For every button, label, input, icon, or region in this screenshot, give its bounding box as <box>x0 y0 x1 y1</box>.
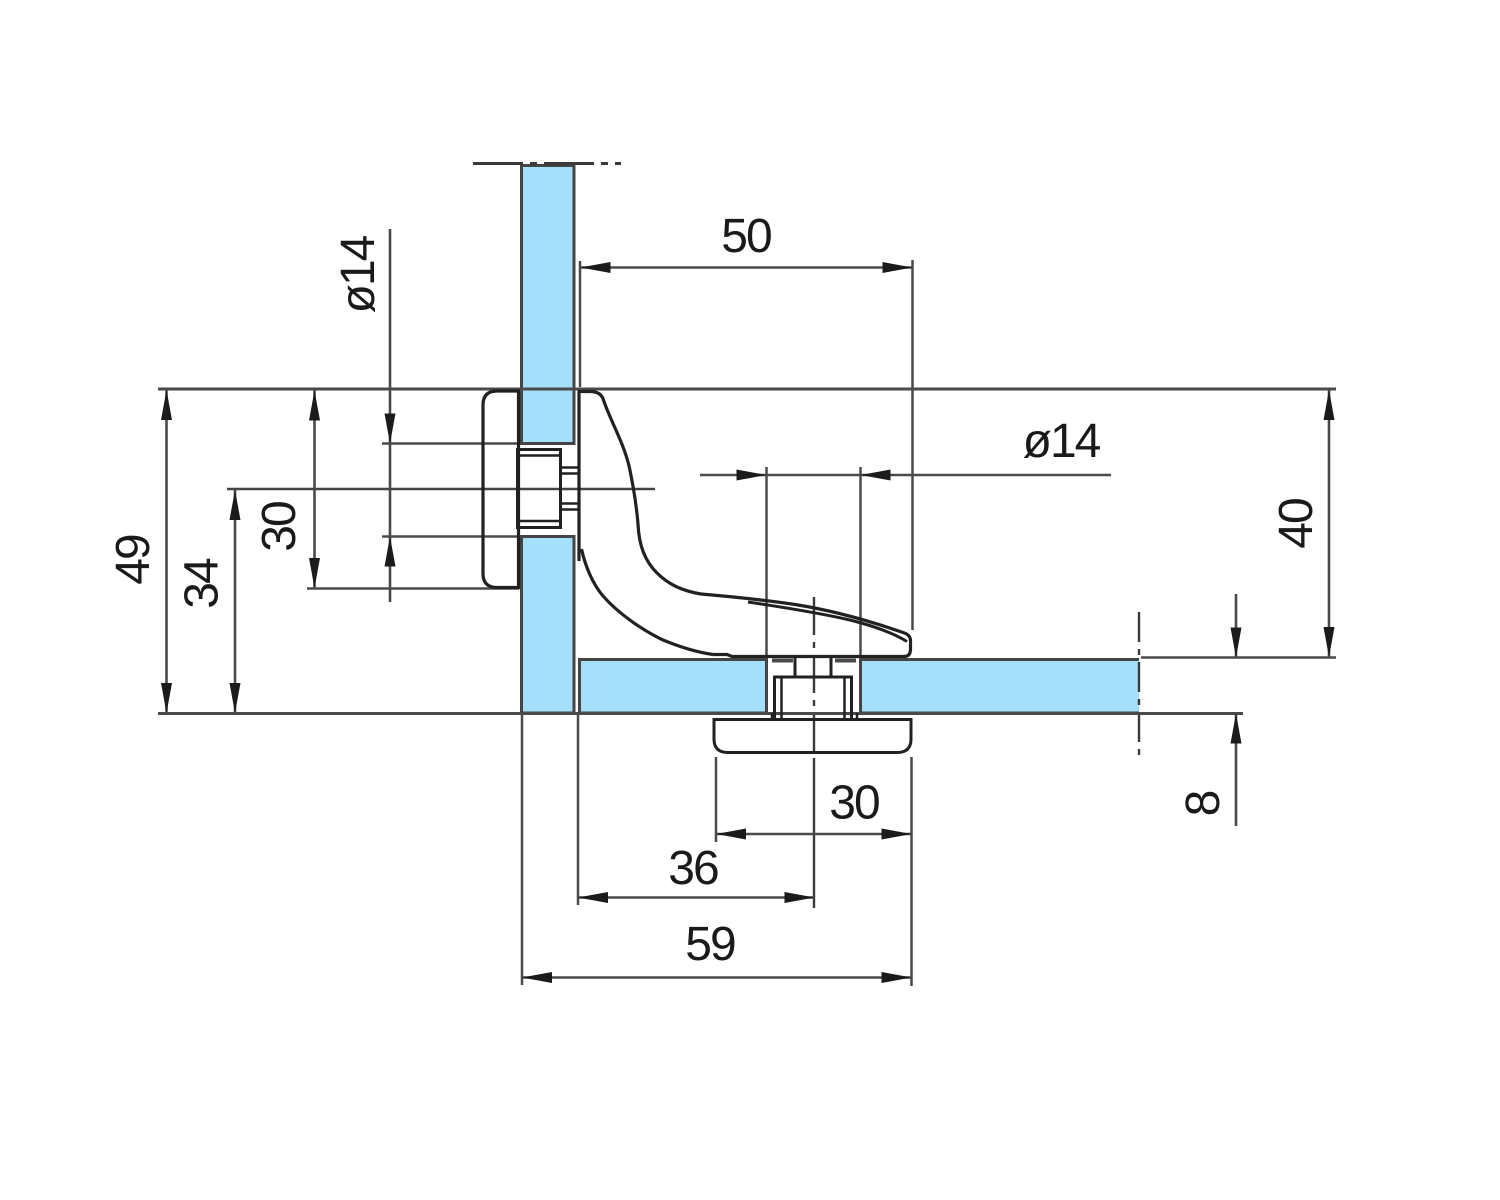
dimension 59 text <box>685 918 735 971</box>
dimension 40 text <box>1270 499 1323 549</box>
svg-text:40: 40 <box>1270 499 1323 549</box>
extension line top (bracket top plane) <box>158 388 1336 391</box>
top screw thread stubs <box>561 468 581 510</box>
vertical glass panel upper part <box>522 166 575 444</box>
dimension 59 line <box>522 972 912 983</box>
extension line bottom head left <box>715 757 718 842</box>
extension line glass face (36 dim) <box>577 713 580 905</box>
dimension 49 line <box>161 390 172 714</box>
centerline top (vertical glass axis break) <box>473 162 621 165</box>
dimension 49 text <box>107 535 160 585</box>
dimension o14 top text <box>332 235 385 313</box>
top screw head with washer <box>518 450 561 528</box>
dimension o14 bottom line <box>700 470 1111 481</box>
dimension 8 text <box>1177 790 1230 817</box>
centerline right (horizontal glass end) <box>1138 612 1140 762</box>
dimension 30 pad text <box>253 502 306 552</box>
svg-text:49: 49 <box>107 535 160 585</box>
bottom screw washer lips in hole <box>772 659 856 663</box>
dimension o14 top vertical line <box>385 229 396 602</box>
svg-text:ø14: ø14 <box>332 235 385 313</box>
vertical glass panel lower part <box>522 537 575 714</box>
bracket bottom fillet curve <box>582 549 714 655</box>
centerline top screw axis <box>227 488 655 491</box>
extension line pad bottom <box>307 587 519 590</box>
svg-text:30: 30 <box>829 777 879 830</box>
dimension 34 line <box>230 490 241 714</box>
extension line bottom hole right <box>859 467 862 659</box>
extension line bottom head right <box>910 757 913 986</box>
extension line glass top right <box>1141 656 1336 659</box>
extension line glass hole top <box>382 442 521 445</box>
svg-text:50: 50 <box>721 210 771 263</box>
bracket body outer profile <box>579 392 911 657</box>
dimension 40 line <box>1324 390 1335 658</box>
centerline bottom screw axis <box>813 597 815 908</box>
horizontal glass panel left part <box>580 660 767 714</box>
dimension 8 lines <box>1231 594 1242 826</box>
bottom screw neck through arm <box>795 655 831 677</box>
bottom screw boss below glass <box>772 713 857 720</box>
bracket arm inner sloped edge <box>748 602 907 642</box>
extension line bracket arm end (50 dim right) <box>911 260 914 630</box>
dimension 34 text <box>176 558 229 609</box>
dimension 50 text <box>721 210 771 263</box>
bottom screw head disc <box>714 720 911 753</box>
clamp pad (left rounded block) <box>483 391 519 588</box>
dimension 50 line <box>581 262 913 273</box>
extension line glass hole bottom <box>382 535 521 538</box>
horizontal glass panel right part <box>861 660 1140 714</box>
dimension 30 pad height line <box>309 390 320 588</box>
svg-text:30: 30 <box>253 502 306 552</box>
extension line bottom (glass underside plane) <box>158 712 1243 715</box>
dimension 30 bottom text <box>829 777 879 830</box>
dimension 36 text <box>668 842 718 895</box>
extension line vertical glass left face (59 dim) <box>521 713 524 985</box>
dimension o14 bottom text <box>1023 415 1101 468</box>
extension line glass face vertical (50 dim left) <box>579 261 582 387</box>
bottom screw nut sleeve in glass hole <box>775 677 852 719</box>
svg-text:36: 36 <box>668 842 718 895</box>
svg-text:34: 34 <box>176 558 229 609</box>
extension line bottom hole left <box>765 467 768 659</box>
dimension 36 line <box>578 892 815 903</box>
svg-text:ø14: ø14 <box>1023 415 1101 468</box>
svg-text:59: 59 <box>685 918 735 971</box>
svg-text:8: 8 <box>1177 790 1230 817</box>
dimension 30 bottom line <box>716 829 912 840</box>
